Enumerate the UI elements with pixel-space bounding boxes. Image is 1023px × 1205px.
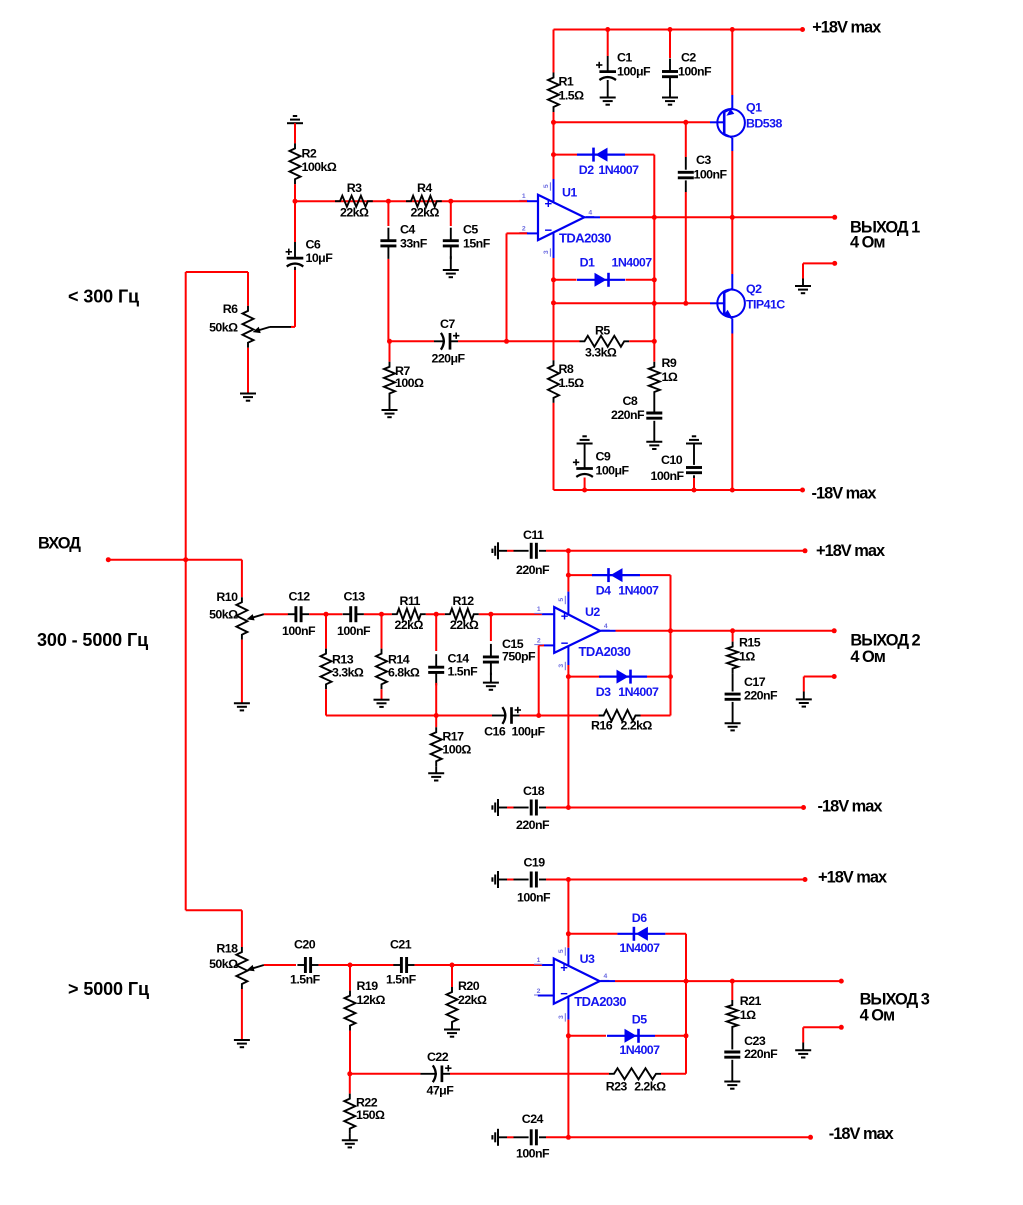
- svg-text:TIP41C: TIP41C: [746, 298, 785, 312]
- svg-text:100Ω: 100Ω: [395, 376, 424, 390]
- svg-text:D6: D6: [632, 911, 647, 925]
- svg-text:R5: R5: [595, 324, 610, 338]
- svg-text:1.5Ω: 1.5Ω: [559, 376, 585, 390]
- svg-text:R18: R18: [216, 942, 238, 956]
- svg-text:ВЫХОД 2: ВЫХОД 2: [850, 631, 920, 649]
- svg-text:C2: C2: [681, 51, 696, 65]
- svg-text:R12: R12: [453, 594, 475, 608]
- svg-text:−: −: [545, 223, 553, 238]
- svg-text:-18V max: -18V max: [829, 1125, 894, 1143]
- svg-text:1N4007: 1N4007: [619, 1043, 660, 1057]
- svg-text:22kΩ: 22kΩ: [411, 205, 440, 219]
- svg-text:220nF: 220nF: [744, 689, 778, 703]
- svg-text:22kΩ: 22kΩ: [458, 993, 487, 1007]
- svg-text:R14: R14: [388, 652, 410, 666]
- svg-text:C8: C8: [623, 394, 638, 408]
- svg-text:150Ω: 150Ω: [356, 1108, 385, 1122]
- svg-text:50kΩ: 50kΩ: [209, 957, 238, 971]
- svg-text:TDA2030: TDA2030: [579, 644, 631, 659]
- svg-text:R16: R16: [591, 718, 613, 732]
- svg-text:TDA2030: TDA2030: [559, 230, 611, 245]
- svg-text:1Ω: 1Ω: [662, 370, 678, 384]
- svg-text:100Ω: 100Ω: [442, 742, 471, 756]
- svg-text:100nF: 100nF: [651, 469, 685, 483]
- svg-text:−: −: [560, 986, 568, 1001]
- svg-text:100nF: 100nF: [337, 624, 371, 638]
- svg-text:1N4007: 1N4007: [612, 256, 653, 270]
- svg-text:< 300 Гц: < 300 Гц: [68, 287, 139, 307]
- svg-text:R15: R15: [739, 636, 761, 650]
- svg-text:10μF: 10μF: [306, 251, 334, 265]
- svg-text:D5: D5: [632, 1012, 647, 1026]
- svg-text:750pF: 750pF: [502, 650, 536, 664]
- svg-text:C20: C20: [294, 938, 316, 952]
- svg-text:15nF: 15nF: [463, 236, 491, 250]
- svg-text:1.5nF: 1.5nF: [448, 664, 479, 678]
- svg-text:R19: R19: [357, 979, 379, 993]
- svg-text:300 - 5000 Гц: 300 - 5000 Гц: [37, 630, 148, 650]
- svg-text:D4: D4: [596, 583, 611, 597]
- svg-text:1N4007: 1N4007: [619, 941, 660, 955]
- svg-text:4 Ом: 4 Ом: [850, 648, 885, 666]
- svg-text:R20: R20: [458, 979, 480, 993]
- svg-text:BD538: BD538: [746, 116, 782, 130]
- svg-text:R23: R23: [606, 1080, 628, 1094]
- svg-text:R11: R11: [400, 594, 421, 608]
- svg-text:C4: C4: [400, 223, 415, 237]
- svg-text:33nF: 33nF: [400, 236, 428, 250]
- svg-text:3.3kΩ: 3.3kΩ: [585, 346, 617, 360]
- svg-text:U1: U1: [562, 186, 577, 200]
- svg-text:R17: R17: [442, 729, 464, 743]
- svg-text:D3: D3: [596, 685, 611, 699]
- svg-text:Q1: Q1: [746, 101, 762, 115]
- svg-text:100nF: 100nF: [516, 1147, 550, 1161]
- svg-text:+18V max: +18V max: [818, 869, 887, 887]
- svg-text:1N4007: 1N4007: [598, 163, 639, 177]
- svg-text:C1: C1: [617, 51, 632, 65]
- svg-text:C12: C12: [289, 589, 311, 603]
- svg-text:+: +: [561, 609, 569, 624]
- svg-text:100μF: 100μF: [596, 464, 630, 478]
- svg-text:C11: C11: [523, 528, 544, 542]
- svg-text:ВХОД: ВХОД: [38, 535, 81, 553]
- svg-text:100nF: 100nF: [282, 624, 316, 638]
- svg-text:+18V max: +18V max: [812, 18, 881, 36]
- svg-text:U2: U2: [585, 605, 600, 619]
- svg-text:C19: C19: [524, 856, 546, 870]
- svg-text:220μF: 220μF: [432, 352, 466, 366]
- svg-text:R2: R2: [302, 146, 317, 160]
- svg-text:TDA2030: TDA2030: [574, 994, 626, 1009]
- svg-text:1.5nF: 1.5nF: [290, 973, 321, 987]
- svg-text:2.2kΩ: 2.2kΩ: [621, 718, 653, 732]
- svg-text:1Ω: 1Ω: [739, 650, 755, 664]
- svg-text:R13: R13: [332, 652, 354, 666]
- svg-text:C5: C5: [463, 223, 478, 237]
- svg-text:C23: C23: [744, 1034, 766, 1048]
- svg-text:C10: C10: [661, 453, 683, 467]
- svg-text:1N4007: 1N4007: [618, 685, 659, 699]
- svg-text:50kΩ: 50kΩ: [209, 320, 238, 334]
- svg-text:22kΩ: 22kΩ: [340, 205, 369, 219]
- svg-text:R3: R3: [347, 181, 362, 195]
- svg-text:1.5nF: 1.5nF: [386, 973, 417, 987]
- svg-text:-18V max: -18V max: [818, 798, 883, 816]
- svg-text:6.8kΩ: 6.8kΩ: [388, 665, 420, 679]
- svg-text:C18: C18: [523, 784, 545, 798]
- svg-text:1Ω: 1Ω: [740, 1008, 756, 1022]
- svg-text:220nF: 220nF: [516, 563, 550, 577]
- svg-text:C17: C17: [744, 675, 766, 689]
- svg-text:3.3kΩ: 3.3kΩ: [332, 665, 364, 679]
- svg-text:C6: C6: [306, 237, 321, 251]
- svg-text:U3: U3: [580, 952, 595, 966]
- svg-text:22kΩ: 22kΩ: [395, 618, 424, 632]
- svg-text:C16: C16: [484, 724, 506, 738]
- svg-text:220nF: 220nF: [516, 818, 550, 832]
- svg-text:100nF: 100nF: [678, 65, 712, 79]
- svg-text:D1: D1: [580, 256, 595, 270]
- svg-text:100μF: 100μF: [617, 65, 651, 79]
- svg-text:Q2: Q2: [746, 282, 762, 296]
- svg-text:4 Ом: 4 Ом: [850, 234, 885, 252]
- svg-text:1N4007: 1N4007: [618, 583, 659, 597]
- svg-text:+: +: [545, 196, 553, 211]
- svg-text:C13: C13: [344, 589, 366, 603]
- svg-text:C22: C22: [427, 1050, 449, 1064]
- svg-text:R10: R10: [216, 590, 238, 604]
- svg-text:100kΩ: 100kΩ: [302, 160, 337, 174]
- svg-text:C21: C21: [390, 938, 412, 952]
- svg-text:C3: C3: [696, 153, 711, 167]
- svg-text:12kΩ: 12kΩ: [357, 993, 386, 1007]
- svg-text:R1: R1: [559, 75, 574, 89]
- svg-text:R9: R9: [662, 356, 677, 370]
- svg-text:50kΩ: 50kΩ: [209, 608, 238, 622]
- svg-text:100μF: 100μF: [512, 724, 546, 738]
- svg-text:22kΩ: 22kΩ: [450, 618, 479, 632]
- svg-text:2.2kΩ: 2.2kΩ: [634, 1080, 666, 1094]
- svg-text:R8: R8: [559, 362, 574, 376]
- svg-text:C24: C24: [522, 1112, 544, 1126]
- svg-text:47μF: 47μF: [427, 1083, 455, 1097]
- svg-text:D2: D2: [579, 163, 594, 177]
- svg-text:C7: C7: [440, 317, 455, 331]
- svg-text:-18V max: -18V max: [812, 485, 877, 503]
- svg-text:220nF: 220nF: [744, 1047, 778, 1061]
- svg-text:R4: R4: [417, 181, 432, 195]
- svg-text:100nF: 100nF: [694, 167, 728, 181]
- svg-text:100nF: 100nF: [517, 891, 551, 905]
- svg-text:4 Ом: 4 Ом: [860, 1007, 895, 1025]
- svg-text:R6: R6: [223, 302, 238, 316]
- svg-text:+18V max: +18V max: [816, 542, 885, 560]
- svg-text:R21: R21: [740, 994, 762, 1008]
- svg-text:1.5Ω: 1.5Ω: [559, 89, 585, 103]
- svg-text:C9: C9: [596, 449, 611, 463]
- svg-text:+: +: [560, 960, 568, 975]
- svg-text:220nF: 220nF: [611, 408, 645, 422]
- svg-text:> 5000 Гц: > 5000 Гц: [68, 979, 149, 999]
